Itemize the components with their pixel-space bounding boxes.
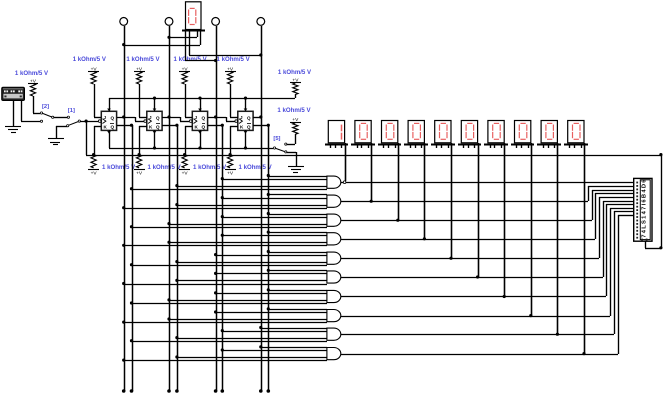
junction G6 input 2 (214, 272, 217, 275)
wire G5 input 3 (177, 262, 327, 264)
wire Q3 complement output (253, 125, 268, 127)
wire G6 input 2 (216, 273, 327, 275)
wire G4 input 3 (169, 242, 327, 244)
wire G1 input 3 (177, 186, 327, 188)
svg-text:1 kOhm/5 V: 1 kOhm/5 V (73, 56, 107, 63)
junction D2 G2 (370, 200, 373, 203)
junction D4 G4 (423, 237, 426, 240)
wire switch5 lower throw to ground (287, 152, 297, 166)
node bottom tip 6 (221, 389, 225, 393)
svg-text:1 kOhm/5 V: 1 kOhm/5 V (102, 164, 136, 171)
svg-text:Q: Q (156, 116, 160, 121)
7-segment display D1 (325, 121, 348, 149)
junction D6 G6 (476, 275, 479, 278)
preset bus wire (109, 98, 295, 100)
wire G7 output to IC pin7 (341, 204, 634, 297)
wire G9 input 2 (222, 331, 327, 333)
wire D2 down to G2 output (371, 143, 373, 201)
junction Q0 column (122, 115, 125, 118)
clear bus wire (109, 148, 273, 150)
resistor R6 1kOhm below U1 with +V (88, 126, 136, 177)
AND gate G9 (state 8) (327, 328, 341, 340)
junction G9 input 2 (221, 329, 224, 332)
wire G6 output to IC pin6 (341, 201, 634, 278)
svg-text:1 kOhm/5 V: 1 kOhm/5 V (239, 164, 273, 171)
wire column Q2b complement (222, 125, 224, 391)
junction D9 G9 (556, 333, 559, 336)
junction Q2b column (221, 124, 224, 127)
wire column Q2 from probe down (216, 26, 218, 391)
wire G1 input 2 (222, 179, 327, 181)
wire U5 pin2 (189, 31, 261, 56)
wire G9 output to IC pin9 (341, 211, 634, 335)
junction G4 input 1 (267, 231, 270, 234)
wire G9 input 3 (177, 338, 327, 340)
wire G9 input 4 (132, 341, 327, 343)
JK flip-flop U4 (235, 98, 253, 148)
7-segment display D6 (458, 121, 481, 149)
AND gate G10 (state 9) (327, 348, 341, 360)
junction D5 G5 (449, 257, 452, 260)
AND gate G5 (state 4) (327, 252, 341, 264)
power source X1 (2, 87, 25, 100)
junction G8 input 4 (122, 321, 125, 324)
wire X1 left pin to ground (13, 101, 15, 126)
svg-text:Q: Q (111, 125, 115, 130)
wire clock branch down to +5V bus (86, 121, 88, 155)
node bottom tip 1 (122, 389, 126, 393)
AND gate G4 (state 3) (327, 233, 341, 245)
wire G10 input 4 (124, 360, 327, 362)
resistor R4 1kOhm pull-up to J of U3 (174, 56, 208, 117)
wire G5 output to IC pin5 (341, 197, 634, 259)
JK flip-flop U1 (98, 98, 116, 148)
resistor R9 1kOhm below U4 with +V (225, 126, 273, 177)
junction U5 pin4 Q0 (122, 43, 125, 46)
resistor R2 1kOhm pull-up to J of U1 (73, 56, 107, 117)
junction D3 G3 (396, 219, 399, 222)
wire column Q0b complement (132, 125, 134, 391)
junction bus R9 (229, 153, 232, 156)
wire D8 down to G8 output (531, 143, 533, 316)
svg-text:+V: +V (182, 171, 189, 177)
junction G1 input 4 (130, 187, 133, 190)
wire G5 input 1 (268, 252, 327, 254)
7-segment display D5 (431, 121, 455, 149)
probe P2 (165, 18, 173, 26)
junction clear U3 (198, 146, 201, 149)
wire D9 down to G9 output (557, 143, 559, 334)
probe P1 (120, 18, 128, 26)
junction G2 input 3 (175, 203, 178, 206)
7-segment display U5 (top) (182, 2, 205, 31)
wire D6 down to G6 output (478, 143, 480, 277)
wire G4 input 4 (124, 245, 327, 247)
wire Q1 complement output (162, 125, 177, 127)
wire G2 output to IC pin2 (341, 186, 634, 202)
node bottom tip 2 (130, 389, 134, 393)
wire G1 input 1 (268, 176, 327, 178)
svg-text:1 kOhm/5 V: 1 kOhm/5 V (15, 70, 49, 77)
svg-text:J: J (240, 115, 243, 120)
AND gate G8 (state 7) (327, 310, 341, 322)
resistor R10 1kOhm preset pull-up (278, 69, 312, 98)
node bottom tip 8 (267, 389, 271, 393)
wire G8 input 2 (216, 312, 327, 314)
bubble at G1 output (343, 181, 346, 184)
AND gate G6 (state 5) (327, 271, 341, 283)
resistor R1 1kOhm pull-up with +V (15, 70, 49, 114)
svg-text:Q: Q (202, 116, 206, 121)
junction G10 input 2 (221, 348, 224, 351)
wire D1 down to G1 bubble (345, 143, 347, 181)
node bottom tip 7 (259, 389, 263, 393)
junction G1 input 1 (267, 174, 270, 177)
svg-text:74LS147I6B4D6: 74LS147I6B4D6 (642, 179, 648, 238)
svg-text:Q: Q (111, 116, 115, 121)
junction G5 input 2 (214, 253, 217, 256)
wire G4 input 1 (268, 232, 327, 234)
wire G3 input 3 (169, 224, 327, 226)
JK flip-flop U2 (144, 98, 162, 148)
junction G10 input 4 (122, 359, 125, 362)
wire G1 input 4 (132, 189, 327, 191)
wire Q2 output to clock chain (208, 117, 235, 122)
junction G6 input 1 (267, 269, 270, 272)
junction G7 input 2 (214, 291, 217, 294)
wire D10 down to G10 output (584, 143, 586, 354)
wire G10 input 1 (261, 347, 327, 349)
wire G10 output to IC pin10 (341, 215, 634, 355)
svg-text:J: J (149, 115, 152, 120)
wire switch1 pole to FF1 clock (80, 121, 99, 123)
wire G3 input 2 (222, 217, 327, 219)
switch J5 key=5 (273, 136, 287, 153)
IC U6 74LS147 encoder (634, 178, 652, 241)
svg-text:J: J (104, 115, 107, 120)
AND gate G2 (state 1) (327, 195, 341, 207)
wire G7 input 4 (132, 303, 327, 305)
junction G2 input 1 (267, 193, 270, 196)
junction G5 input 3 (175, 260, 178, 263)
junction G8 input 3 (167, 317, 170, 320)
junction preset U3 (198, 97, 201, 100)
svg-text:1 kOhm/5 V: 1 kOhm/5 V (148, 164, 182, 171)
junction G4 input 4 (122, 244, 125, 247)
junction G9 input 1 (259, 326, 262, 329)
junction G4 input 3 (167, 241, 170, 244)
wire G3 input 1 (268, 214, 327, 216)
wire column Q3 from probe down (261, 26, 263, 391)
junction G2 input 2 (221, 196, 224, 199)
junction G9 input 4 (130, 339, 133, 342)
junction clear U2 (153, 146, 156, 149)
resistor R3 1kOhm pull-up to J of U2 (126, 56, 160, 117)
junction G8 input 2 (214, 310, 217, 313)
switch J1 key=1 (67, 108, 81, 127)
svg-text:[1]: [1] (68, 108, 75, 114)
node bus right corner (659, 153, 662, 156)
wire Q0 complement output (117, 125, 132, 127)
svg-text:J: J (195, 115, 198, 120)
junction D7 G7 (503, 295, 506, 298)
wire column Q0 from probe down (124, 26, 126, 391)
node bottom tip 3 (167, 389, 171, 393)
wire U5 pin3 (169, 31, 198, 38)
junction Q1 column (167, 115, 170, 118)
wire X1 right pin (21, 101, 40, 122)
junction G2 input 4 (122, 206, 125, 209)
wire G2 input 3 (177, 205, 327, 207)
junction G6 input 4 (122, 282, 125, 285)
AND gate G1 (state 0) (327, 176, 341, 188)
7-segment display D4 (404, 121, 428, 149)
svg-text:[5]: [5] (273, 136, 280, 142)
wire G9 input 1 (261, 328, 327, 330)
wire G7 input 2 (216, 293, 327, 295)
wire U5 pin4 (124, 31, 201, 46)
wire G5 input 2 (216, 255, 327, 257)
wire G6 input 4 (124, 284, 327, 286)
wire G8 input 4 (124, 322, 327, 324)
svg-text:+V: +V (292, 77, 299, 83)
wire G5 input 4 (132, 265, 327, 267)
junction G3 input 4 (130, 225, 133, 228)
svg-text:+V: +V (292, 117, 299, 123)
wire switch1 lower throw to ground (56, 126, 67, 138)
wire column Q3b complement (268, 125, 270, 391)
junction preset U2 (153, 97, 156, 100)
junction G10 input 3 (175, 355, 178, 358)
junction G7 input 3 (167, 298, 170, 301)
svg-text:+V: +V (227, 171, 234, 177)
junction preset U4 (244, 97, 247, 100)
junction Q0b column (130, 124, 133, 127)
junction G3 input 1 (267, 212, 270, 215)
svg-text:[2]: [2] (42, 104, 49, 110)
junction Q1b column (175, 124, 178, 127)
resistor R5 1kOhm pull-up to J of U4 (217, 56, 251, 117)
junction Q2 column (214, 115, 217, 118)
wire D7 down to G7 output (504, 143, 506, 296)
wire switch2 pole to switch1 (54, 117, 67, 119)
wire G4 output to IC pin4 (341, 193, 634, 240)
wire G8 output to IC pin8 (341, 208, 634, 317)
svg-text:+V: +V (91, 171, 98, 177)
junction D10 G10 (582, 352, 585, 355)
wire D3 down to G3 output (398, 143, 400, 220)
wire column Q1b complement (177, 125, 179, 391)
wire G2 input 1 (268, 194, 327, 196)
junction G5 input 1 (267, 250, 270, 253)
JK flip-flop U3 (189, 98, 207, 148)
7-segment display D9 (537, 121, 561, 149)
wire G3 input 4 (132, 227, 327, 229)
7-segment display D8 (511, 121, 534, 149)
wire D5 down to G5 output (451, 143, 453, 258)
switch J2 key=2 (40, 104, 53, 123)
junction G4 input 2 (221, 234, 224, 237)
wire IC bottom pin (645, 241, 661, 249)
7-segment display D2 (351, 121, 375, 149)
wire D4 down to G4 output (424, 143, 426, 239)
wire G8 input 1 (268, 309, 327, 311)
junction U5 pin3 Q1 (167, 36, 170, 39)
junction bus R7 (138, 153, 141, 156)
junction G8 input 1 (267, 307, 270, 310)
wire Q2 complement output (208, 125, 222, 127)
wire U5 pin1 (185, 31, 216, 61)
resistor R8 1kOhm below U3 with +V (179, 126, 227, 177)
junction G3 input 3 (167, 222, 170, 225)
svg-text:1 kOhm/5 V: 1 kOhm/5 V (277, 107, 311, 114)
wire G7 input 1 (268, 290, 327, 292)
node bottom tip 4 (175, 389, 179, 393)
junction U5 pin2 Q3 (259, 53, 262, 56)
ground under X1 (5, 127, 21, 133)
wire G10 input 3 (177, 357, 327, 359)
wire G7 input 3 (169, 300, 327, 302)
svg-text:+V: +V (136, 171, 143, 177)
ground under switch5 (288, 167, 304, 173)
junction G1 input 2 (221, 177, 224, 180)
svg-text:1 kOhm/5 V: 1 kOhm/5 V (217, 56, 251, 63)
wire column Q1 from probe down (169, 26, 171, 391)
junction G7 input 4 (130, 301, 133, 304)
junction G3 input 2 (221, 215, 224, 218)
ground under switch1 (48, 139, 64, 145)
AND gate G7 (state 6) (327, 290, 341, 302)
wire G8 input 3 (169, 319, 327, 321)
wire G2 input 2 (222, 198, 327, 200)
wire G6 input 3 (177, 280, 327, 282)
wire G6 input 1 (268, 270, 327, 272)
wire G3 output to IC pin3 (341, 190, 634, 221)
junction clock node (85, 120, 88, 123)
wire G4 input 2 (222, 235, 327, 237)
7-segment display D7 (484, 121, 508, 149)
svg-text:1 kOhm/5 V: 1 kOhm/5 V (278, 69, 312, 76)
wire Q0 output to clock chain (117, 117, 144, 122)
svg-text:1 kOhm/5 V: 1 kOhm/5 V (174, 56, 208, 63)
wire G10 input 2 (222, 350, 327, 352)
junction Q3 column (259, 115, 262, 118)
wire G2 input 4 (124, 208, 327, 210)
junction clear U4 (244, 146, 247, 149)
junction G10 input 1 (259, 345, 262, 348)
junction G6 input 3 (175, 279, 178, 282)
junction Q3b column (267, 124, 270, 127)
wire right edge bus down (661, 155, 663, 248)
7-segment display D10 (564, 121, 588, 149)
svg-text:1 kOhm/5 V: 1 kOhm/5 V (126, 56, 160, 63)
svg-text:Q: Q (202, 125, 206, 130)
resistor R11 1kOhm at switch5 (277, 107, 311, 145)
junction G7 input 1 (267, 288, 270, 291)
junction G9 input 3 (175, 336, 178, 339)
junction U5 pin1 Q2 (214, 59, 217, 62)
AND gate G3 (state 2) (327, 214, 341, 226)
node bottom tip 5 (214, 389, 218, 393)
junction bus R6 (92, 153, 95, 156)
svg-text:Q: Q (247, 116, 251, 121)
svg-text:Q: Q (247, 125, 251, 130)
junction bus R8 (183, 153, 186, 156)
wire Q1 output to clock chain (162, 117, 189, 122)
junction G1 input 3 (175, 184, 178, 187)
+5V bus wire (86, 155, 661, 157)
resistor R7 1kOhm below U2 with +V (134, 126, 182, 177)
probe P3 (212, 18, 220, 26)
junction D8 G8 (529, 314, 532, 317)
node IC bottom corner (659, 246, 662, 249)
7-segment display D3 (378, 121, 401, 149)
wire G1 output to IC pin1 (341, 182, 634, 184)
junction G5 input 4 (130, 263, 133, 266)
probe P4 (257, 18, 265, 26)
wire Q3 output to clock chain (253, 117, 261, 119)
svg-text:Q: Q (156, 125, 160, 130)
